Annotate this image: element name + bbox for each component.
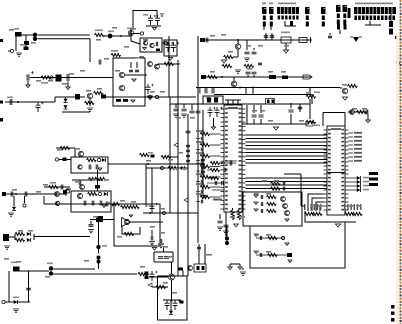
ground bbox=[254, 209, 258, 211]
opamp box 2 bbox=[71, 191, 111, 212]
transistor Q18 bbox=[350, 110, 355, 115]
ground bbox=[173, 114, 179, 117]
ferrite bead L7 bbox=[282, 76, 288, 80]
pull-up resistor row y=156 bbox=[200, 154, 210, 157]
diode D14 bbox=[104, 192, 108, 196]
capacitor C59 bbox=[261, 195, 262, 199]
wire bbox=[131, 221, 164, 223]
resistor R31 bbox=[49, 185, 59, 188]
capacitor C66a bbox=[198, 88, 200, 94]
capacitor C34 bbox=[224, 168, 226, 172]
wire bbox=[72, 179, 103, 181]
capacitor C37a bbox=[79, 181, 81, 185]
address bus wire A2 bbox=[246, 184, 328, 186]
diode D1 bbox=[24, 47, 29, 51]
capacitor C39 bbox=[84, 201, 86, 206]
terminal bbox=[201, 75, 206, 79]
diode D3b bbox=[64, 105, 68, 109]
wire bbox=[44, 186, 70, 188]
address bus wire A3 bbox=[246, 188, 328, 190]
capacitor C23 bbox=[264, 36, 269, 38]
inductor bead bbox=[50, 76, 53, 79]
transistor Q4b bbox=[148, 62, 153, 67]
transistor Q1 bbox=[128, 30, 133, 35]
wire bbox=[143, 212, 180, 214]
resistor R5b bbox=[116, 99, 121, 102]
capacitor C35b bbox=[222, 181, 224, 185]
wire bbox=[44, 203, 117, 205]
resistor R6b bbox=[164, 62, 174, 65]
ground bbox=[88, 230, 94, 233]
resistor R15 bbox=[222, 64, 232, 67]
wire bbox=[170, 103, 203, 105]
terminal arrow bbox=[303, 75, 312, 79]
ground bbox=[285, 243, 289, 245]
net label bbox=[196, 152, 204, 154]
wire bbox=[225, 212, 227, 240]
ground bbox=[129, 215, 133, 217]
inductor L5 bbox=[148, 95, 151, 98]
input terminal J3 bbox=[2, 192, 6, 196]
voltage regulator U3 bbox=[281, 37, 291, 43]
transistor Q6 bbox=[235, 44, 240, 49]
net label bbox=[196, 163, 204, 165]
ground bbox=[234, 224, 239, 227]
transistor Q7 bbox=[231, 81, 236, 86]
wire vertical rail bbox=[202, 110, 204, 193]
diode D11 bbox=[14, 300, 18, 304]
wire bbox=[285, 43, 287, 50]
terminal bbox=[395, 36, 399, 39]
wire bbox=[143, 163, 203, 165]
resistor R36 bbox=[15, 232, 25, 235]
ground bbox=[87, 108, 93, 111]
capacitor C35a bbox=[215, 181, 217, 185]
wire bbox=[309, 88, 311, 94]
resistor R45 bbox=[267, 209, 277, 212]
resistor R35b bbox=[124, 232, 134, 235]
polarized capacitor C46b bbox=[96, 245, 100, 249]
pull-up resistor row y=187 bbox=[200, 185, 210, 188]
capacitor C54 bbox=[165, 300, 170, 310]
capacitor C58 bbox=[224, 225, 229, 227]
wire vertical bbox=[145, 164, 147, 207]
resistor R37 bbox=[15, 238, 25, 241]
wire bbox=[104, 35, 126, 37]
junction bbox=[221, 162, 223, 164]
resistor R18 bbox=[348, 84, 358, 87]
power box bbox=[158, 276, 188, 320]
capacitor C28 bbox=[246, 72, 251, 74]
resistor R41 bbox=[231, 210, 234, 220]
wire bbox=[204, 244, 206, 264]
resistor R25 bbox=[60, 146, 70, 149]
polarized capacitor C14c bbox=[215, 107, 220, 117]
resistor R10 bbox=[85, 101, 95, 104]
voltage ref U5 bbox=[194, 264, 206, 272]
resistor R40 bbox=[179, 268, 184, 271]
data bus wire D1 bbox=[246, 138, 328, 140]
resistor R21a bbox=[140, 153, 150, 156]
wire bbox=[170, 300, 172, 311]
capacitor C48 bbox=[160, 239, 162, 243]
capacitor C33 bbox=[230, 161, 232, 166]
polarized capacitor C50b bbox=[97, 256, 101, 260]
output terminal OUT1 bbox=[349, 136, 354, 138]
resistor R2 bbox=[95, 33, 105, 36]
capacitor C36 bbox=[96, 165, 98, 170]
wire bbox=[367, 114, 369, 120]
capacitor C66b bbox=[205, 88, 207, 94]
capacitor C60 bbox=[261, 202, 262, 206]
wire bbox=[242, 123, 308, 125]
ground bbox=[335, 224, 340, 227]
ground bbox=[168, 58, 172, 61]
wire bbox=[299, 104, 301, 112]
resistor R23 bbox=[210, 168, 220, 171]
resistor R17 bbox=[208, 75, 218, 78]
wire loop net D bbox=[250, 222, 345, 268]
wire bbox=[125, 74, 147, 76]
output terminal O3 bbox=[349, 189, 358, 191]
connector J6 pin col 2 bbox=[269, 7, 274, 14]
wire bbox=[370, 21, 381, 26]
wire loop bbox=[133, 11, 157, 31]
resistor network RN1 bbox=[305, 212, 315, 215]
input terminal J5 bbox=[2, 300, 5, 303]
capacitor C27 bbox=[258, 63, 262, 65]
wire bbox=[98, 264, 100, 270]
capacitor C19 bbox=[283, 187, 284, 191]
wire bbox=[56, 147, 75, 149]
wire bbox=[65, 189, 67, 196]
net label text bbox=[369, 172, 378, 175]
ferrite bead L1 bbox=[15, 32, 22, 37]
wire bbox=[27, 81, 29, 85]
arrow marker bbox=[148, 283, 152, 287]
inductor bead bbox=[164, 41, 167, 44]
capacitor C31 bbox=[186, 131, 191, 133]
ground bbox=[288, 260, 292, 262]
microcontroller U1 bbox=[224, 105, 242, 212]
inductor bead bbox=[98, 192, 101, 195]
connector J6 pin col bbox=[262, 7, 267, 14]
pull-up resistor row y=166.5 bbox=[200, 165, 210, 168]
ground bbox=[147, 96, 153, 99]
output terminal OUT0 bbox=[349, 132, 354, 134]
wire bbox=[126, 35, 131, 37]
resistor R14 bbox=[224, 55, 234, 58]
data bus wire D0 bbox=[246, 134, 328, 136]
resistor R33 bbox=[121, 205, 131, 208]
capacitor C40 bbox=[92, 201, 94, 206]
wire bbox=[146, 167, 188, 169]
capacitor C3 bbox=[99, 60, 101, 65]
wire bbox=[53, 268, 95, 270]
header J11 bbox=[354, 7, 396, 14]
terminal bbox=[396, 61, 400, 64]
junction bbox=[237, 39, 239, 41]
transistor Q9b bbox=[78, 165, 82, 169]
ferrite bead bbox=[56, 75, 62, 82]
polarized capacitor C9d bbox=[36, 102, 41, 112]
capacitor C1 bbox=[24, 41, 29, 45]
output terminal OUT6 bbox=[349, 156, 354, 158]
ground bbox=[149, 242, 155, 245]
capacitor C62 bbox=[260, 236, 261, 240]
wire bbox=[89, 39, 91, 63]
output terminal OUT4 bbox=[349, 148, 354, 150]
output terminal OUT3 bbox=[349, 144, 354, 146]
ground bbox=[254, 195, 258, 197]
wire box bbox=[214, 95, 312, 105]
wire bbox=[8, 271, 10, 302]
ground bbox=[254, 202, 258, 204]
wire bbox=[246, 105, 248, 124]
ground bbox=[342, 97, 347, 100]
wire bbox=[237, 49, 239, 57]
resistor R20 bbox=[161, 155, 171, 158]
component block bbox=[75, 94, 80, 100]
net label bbox=[196, 130, 204, 132]
transistor Q5 bbox=[87, 93, 92, 98]
wire bbox=[5, 301, 30, 303]
ferrite bead bbox=[63, 158, 67, 162]
ground bbox=[8, 213, 14, 216]
net label bbox=[213, 199, 222, 201]
terminal block bbox=[299, 38, 307, 43]
net label bbox=[196, 193, 204, 195]
resistor R19b bbox=[306, 120, 316, 123]
address bus wire A1 bbox=[246, 181, 328, 183]
wire bbox=[171, 280, 173, 300]
output terminal O0 bbox=[349, 177, 358, 179]
capacitor C9 bbox=[10, 99, 12, 105]
capacitor C15 bbox=[252, 115, 257, 117]
ground bbox=[152, 28, 156, 31]
wire bbox=[108, 163, 148, 165]
ferrite bead L4 bbox=[101, 95, 106, 99]
output terminal OUT2 bbox=[349, 140, 354, 142]
diode D12 bbox=[353, 37, 359, 42]
resistor R47 bbox=[268, 253, 278, 256]
resistor R26 bbox=[87, 158, 97, 161]
box caps bbox=[164, 40, 177, 56]
polarized capacitor C2 bbox=[33, 33, 37, 37]
resistor R11 bbox=[271, 182, 281, 185]
polarized capacitor C9a bbox=[27, 74, 29, 81]
capacitor C41 bbox=[11, 192, 13, 197]
inductor bead bbox=[160, 166, 163, 169]
pull-up resistor row y=145 bbox=[200, 143, 210, 146]
wire bbox=[163, 299, 181, 301]
diode D9 bbox=[27, 232, 31, 236]
inductor bead bbox=[23, 204, 26, 207]
resistor R48 bbox=[290, 21, 293, 27]
output terminal O1 bbox=[349, 181, 358, 183]
wire bbox=[171, 262, 173, 274]
ground bbox=[102, 205, 106, 207]
net label bbox=[196, 141, 204, 143]
arrow marker bbox=[184, 198, 188, 202]
resistor network RN2 bbox=[345, 212, 355, 215]
data bus wire D2 bbox=[246, 141, 328, 143]
wire bbox=[146, 25, 161, 27]
input terminal J2 bbox=[0, 101, 3, 104]
wire bbox=[28, 271, 30, 302]
wire VCC rail bbox=[38, 34, 91, 36]
wire bbox=[152, 286, 168, 288]
data bus wire D4 bbox=[246, 148, 328, 150]
data bus wire D3 bbox=[246, 145, 328, 147]
ground bbox=[13, 309, 19, 312]
capacitor C45 bbox=[90, 221, 92, 224]
resistor R19 bbox=[306, 95, 316, 98]
ground bbox=[131, 100, 135, 102]
driver IC U2 bbox=[327, 126, 345, 215]
ground bbox=[228, 267, 232, 270]
wire bbox=[300, 174, 302, 206]
junction bbox=[149, 212, 151, 214]
capacitor C57 bbox=[218, 221, 223, 223]
wire vertical bbox=[43, 196, 45, 204]
wire bbox=[67, 82, 69, 88]
page border dashed bbox=[396, 34, 399, 324]
connector J9 bbox=[321, 7, 326, 14]
wire bbox=[55, 96, 85, 98]
wire bbox=[19, 270, 49, 272]
ground bbox=[244, 58, 250, 61]
diode D10 bbox=[27, 238, 31, 242]
resistor R39 bbox=[156, 285, 166, 288]
diode D13 bbox=[102, 158, 106, 162]
wire vertical bbox=[168, 36, 170, 97]
wire bbox=[62, 111, 90, 113]
capacitor bbox=[201, 137, 202, 141]
capacitor bank on net C bbox=[186, 145, 190, 146]
capacitor C47 bbox=[151, 236, 153, 241]
transistor Q2a bbox=[143, 41, 147, 45]
wire rail bbox=[323, 112, 345, 114]
capacitor C53 bbox=[164, 257, 169, 259]
capacitor C49 bbox=[26, 288, 31, 290]
crystal Y2 bbox=[96, 216, 103, 222]
wire rail 3 bbox=[205, 76, 312, 78]
capacitor bbox=[201, 148, 202, 152]
wire bbox=[59, 159, 71, 161]
resistor R49 bbox=[389, 21, 393, 27]
transistor Q17 bbox=[55, 192, 60, 197]
arrow marker bbox=[174, 143, 178, 147]
inductor bead bbox=[140, 32, 143, 35]
terminal bbox=[0, 118, 3, 122]
diode D5 bbox=[181, 166, 185, 170]
net label bbox=[158, 243, 164, 245]
connector J10 bbox=[336, 5, 341, 12]
transistor Q13 bbox=[188, 266, 193, 271]
capacitor C35 bbox=[89, 165, 91, 170]
wire bbox=[213, 118, 215, 127]
capacitor C66c bbox=[212, 88, 214, 94]
ground bbox=[66, 87, 70, 90]
output terminal O2 bbox=[349, 185, 358, 187]
pull-up resistor row y=134 bbox=[200, 132, 210, 135]
ground bbox=[181, 114, 187, 117]
ground bbox=[16, 53, 22, 56]
IC divider bbox=[327, 172, 345, 174]
ground bbox=[240, 272, 246, 275]
wire loop bbox=[154, 251, 173, 253]
wire bbox=[198, 244, 200, 264]
input terminal J1 bbox=[10, 49, 13, 52]
net label bbox=[196, 173, 204, 175]
capacitor bank C32 bbox=[201, 159, 205, 160]
wire bbox=[180, 212, 198, 214]
capacitor bbox=[201, 159, 202, 163]
continuation dots bbox=[391, 305, 395, 309]
wire rail 4 bbox=[196, 87, 340, 89]
capacitor bbox=[201, 200, 202, 204]
capacitor C16 bbox=[259, 115, 264, 117]
polarized capacitor C7a bbox=[166, 42, 171, 52]
component block bbox=[266, 99, 275, 105]
wire bbox=[263, 27, 265, 31]
capacitor C11 bbox=[174, 109, 179, 111]
crystal Y1 bbox=[203, 96, 223, 104]
ground bbox=[152, 248, 156, 251]
resistor R7 bbox=[41, 76, 51, 79]
ferrite bead L13 bbox=[287, 253, 292, 257]
capacitor C51 bbox=[150, 271, 155, 281]
resistor R44 bbox=[267, 202, 277, 205]
reference designator labels bbox=[9, 29, 14, 31]
wire bbox=[15, 36, 17, 51]
capacitor C25 bbox=[245, 52, 250, 54]
opamp box bbox=[71, 157, 108, 173]
output terminal OUT5 bbox=[349, 152, 354, 154]
wire bbox=[162, 42, 169, 44]
diode D6 bbox=[13, 196, 15, 206]
inductor L10 bbox=[162, 211, 165, 214]
capacitor C14b bbox=[298, 107, 303, 109]
ground bbox=[235, 70, 241, 73]
inductor bead bbox=[66, 190, 69, 193]
ground bbox=[285, 219, 289, 221]
resistor R16 bbox=[244, 64, 254, 67]
capacitor C55 bbox=[173, 300, 178, 310]
capacitor C41b bbox=[25, 192, 27, 197]
capacitor C52 bbox=[158, 257, 163, 259]
resistor R13 bbox=[357, 110, 367, 113]
inductor bead bbox=[97, 158, 100, 161]
capacitor C44 bbox=[106, 202, 108, 207]
net label bbox=[206, 254, 212, 256]
wire bbox=[245, 88, 247, 95]
resistor R38 bbox=[138, 272, 148, 275]
wire long vertical net C bbox=[187, 114, 189, 276]
wire bbox=[53, 273, 137, 275]
resistor R29 bbox=[97, 177, 107, 180]
transistor Q3 bbox=[119, 72, 124, 77]
capacitor C18 bbox=[283, 182, 284, 186]
input terminal J4 bbox=[3, 234, 9, 241]
wire bbox=[89, 99, 91, 106]
transistor Q4c bbox=[155, 64, 160, 69]
ground bbox=[143, 48, 147, 50]
ground bbox=[132, 79, 136, 82]
diode D3a bbox=[64, 99, 68, 103]
header J7 bbox=[277, 7, 299, 14]
